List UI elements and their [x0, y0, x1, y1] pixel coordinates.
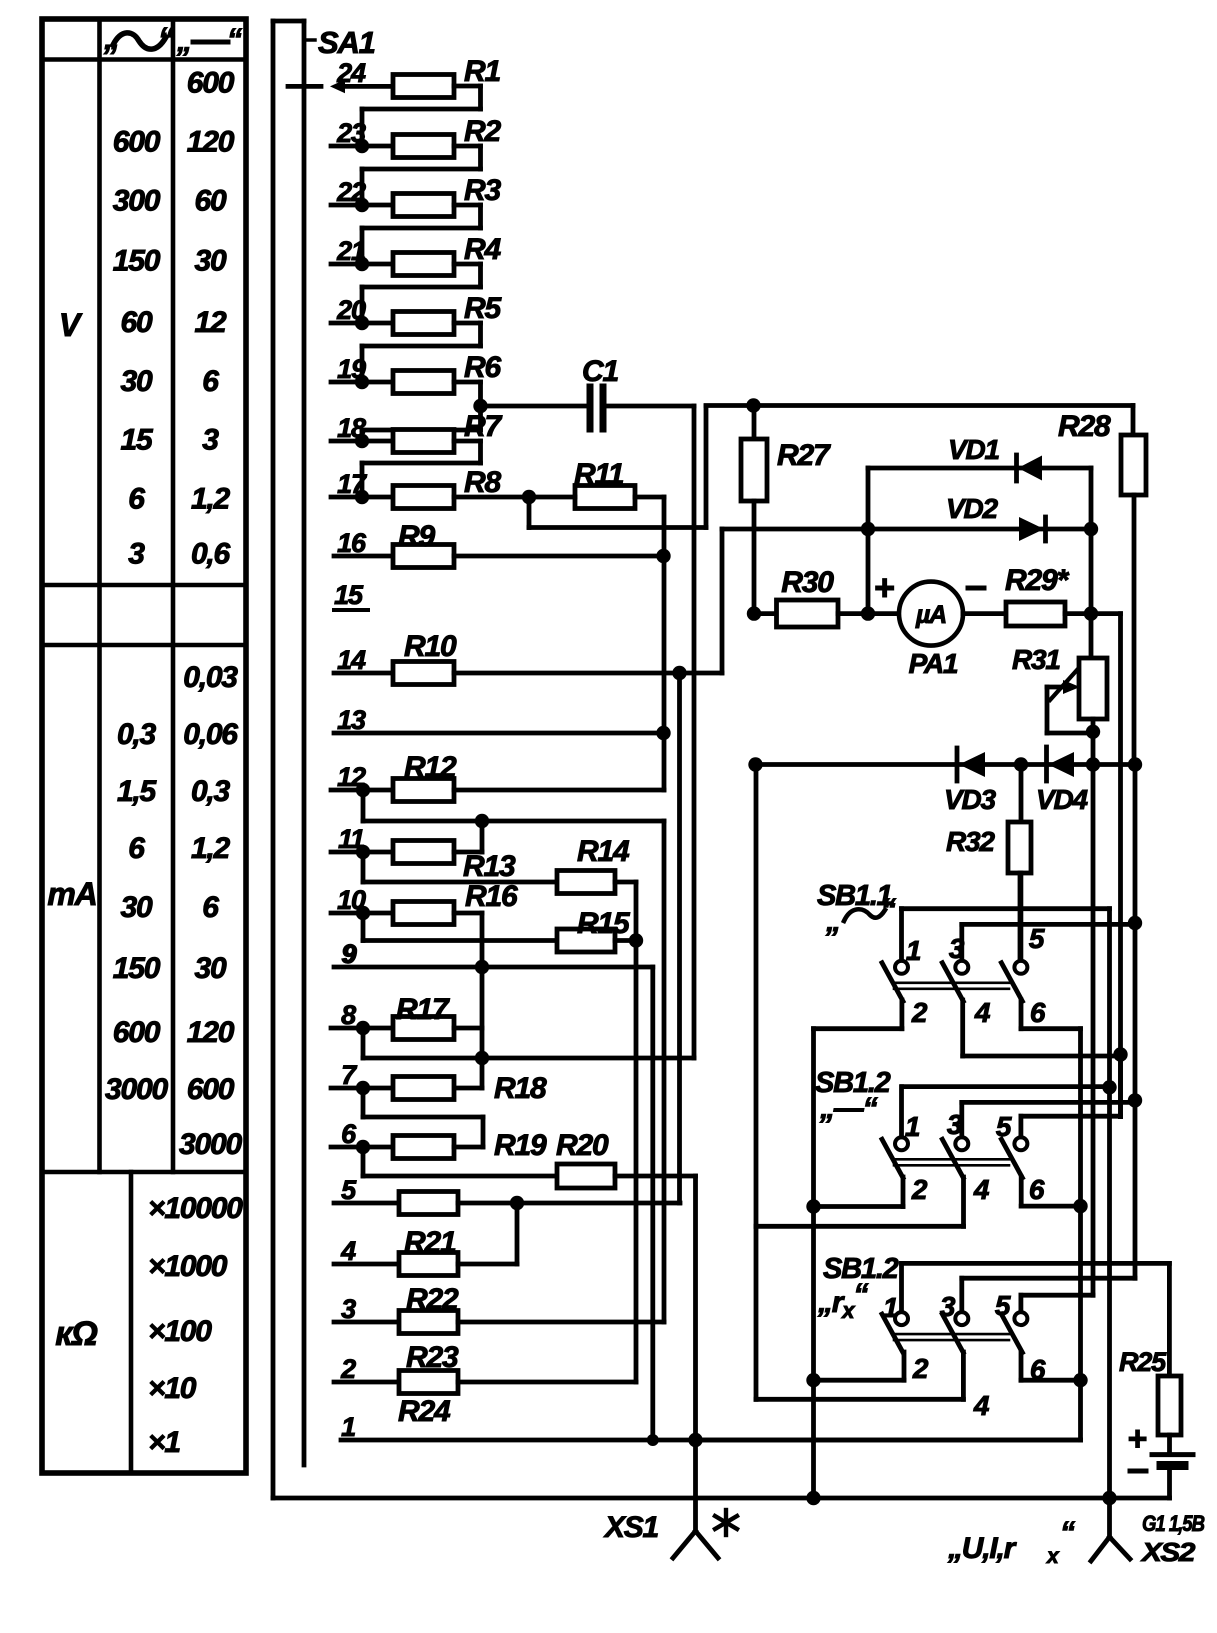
svg-text:1,5: 1,5 [117, 775, 158, 808]
svg-text:3000: 3000 [105, 1073, 168, 1106]
svg-text:кΩ: кΩ [55, 1315, 97, 1353]
svg-text:30: 30 [121, 891, 153, 924]
svg-text:×1: ×1 [148, 1426, 180, 1459]
svg-text:PA1: PA1 [909, 648, 958, 679]
svg-text:R28: R28 [1058, 410, 1111, 443]
svg-text:R11: R11 [574, 458, 624, 491]
svg-text:12: 12 [195, 306, 227, 339]
svg-text:2: 2 [912, 1353, 929, 1384]
svg-text:mA: mA [47, 876, 96, 912]
svg-text:1: 1 [906, 935, 921, 966]
svg-text:XS1: XS1 [603, 1511, 659, 1544]
svg-text:VD1: VD1 [948, 434, 999, 465]
svg-text:„: „ [176, 25, 191, 58]
svg-text:1: 1 [883, 1292, 898, 1323]
svg-text:4: 4 [340, 1236, 356, 1266]
svg-text:16: 16 [337, 528, 367, 558]
svg-text:24: 24 [336, 58, 366, 88]
svg-text:60: 60 [195, 184, 227, 217]
svg-text:R10: R10 [404, 630, 457, 663]
svg-text:0,03: 0,03 [183, 661, 238, 694]
svg-text:×10000: ×10000 [148, 1192, 243, 1225]
svg-text:C1: C1 [582, 355, 618, 388]
svg-text:+: + [874, 567, 894, 608]
svg-text:R6: R6 [464, 351, 501, 384]
svg-text:R13: R13 [463, 850, 516, 883]
svg-text:3: 3 [947, 1109, 963, 1140]
svg-text:R12: R12 [404, 751, 457, 784]
svg-text:VD4: VD4 [1036, 784, 1088, 815]
svg-text:1,2: 1,2 [191, 483, 231, 516]
svg-text:4: 4 [973, 1174, 990, 1205]
svg-text:13: 13 [337, 705, 366, 735]
svg-text:6: 6 [341, 1119, 357, 1149]
svg-text:300: 300 [113, 184, 161, 217]
svg-text:2: 2 [911, 1174, 928, 1205]
svg-text:6: 6 [1029, 1174, 1045, 1205]
svg-text:R32: R32 [946, 826, 995, 857]
svg-text:„U,I,r: „U,I,r [947, 1532, 1018, 1565]
svg-text:R15: R15 [577, 907, 631, 940]
svg-text:3: 3 [128, 538, 145, 571]
svg-text:120: 120 [187, 126, 235, 159]
svg-text:5: 5 [995, 1290, 1011, 1321]
svg-text:R4: R4 [464, 233, 501, 266]
svg-text:0,3: 0,3 [191, 775, 231, 808]
svg-text:3: 3 [940, 1291, 956, 1322]
svg-text:R25: R25 [1119, 1347, 1167, 1377]
svg-text:R27: R27 [777, 439, 831, 472]
svg-text:14: 14 [337, 645, 366, 675]
svg-text:R29*: R29* [1005, 564, 1069, 597]
svg-text:5: 5 [996, 1111, 1012, 1142]
svg-text:R1: R1 [464, 55, 500, 88]
svg-text:15: 15 [334, 580, 364, 610]
svg-text:×10: ×10 [148, 1372, 197, 1405]
svg-text:R17: R17 [396, 993, 450, 1026]
svg-text:„: „ [825, 905, 840, 938]
svg-text:5: 5 [1029, 923, 1045, 954]
svg-text:R7: R7 [464, 410, 502, 443]
svg-text:R24: R24 [398, 1395, 451, 1428]
svg-text:0,6: 0,6 [191, 538, 231, 571]
svg-text:“: “ [881, 893, 896, 926]
svg-text:“: “ [158, 21, 174, 57]
svg-text:600: 600 [187, 1073, 235, 1106]
svg-text:SA1: SA1 [318, 25, 375, 60]
svg-text:2: 2 [911, 997, 928, 1028]
svg-text:VD2: VD2 [946, 493, 998, 524]
svg-text:5: 5 [341, 1175, 357, 1205]
svg-text:30: 30 [195, 952, 227, 985]
svg-text:R20: R20 [556, 1129, 609, 1162]
svg-text:R8: R8 [464, 466, 501, 499]
svg-text:1: 1 [341, 1412, 355, 1442]
svg-text:3000: 3000 [179, 1128, 242, 1161]
svg-text:R30: R30 [781, 566, 834, 599]
svg-text:R2: R2 [464, 115, 501, 148]
svg-text:„—“: „—“ [819, 1092, 878, 1125]
svg-text:+: + [1128, 1420, 1147, 1458]
svg-text:R31: R31 [1012, 644, 1060, 675]
svg-text:R18: R18 [494, 1072, 547, 1105]
svg-text:3: 3 [949, 933, 965, 964]
svg-text:R9: R9 [398, 520, 435, 553]
svg-text:60: 60 [121, 306, 153, 339]
svg-text:6: 6 [1030, 1354, 1046, 1385]
svg-text:µA: µA [915, 601, 946, 629]
svg-text:600: 600 [113, 1016, 161, 1049]
svg-text:6: 6 [202, 891, 219, 924]
svg-text:G1 1,5В: G1 1,5В [1142, 1511, 1205, 1536]
svg-text:6: 6 [1030, 997, 1046, 1028]
svg-text:R5: R5 [464, 292, 502, 325]
svg-text:120: 120 [187, 1016, 235, 1049]
svg-text:R14: R14 [577, 835, 630, 868]
svg-text:×100: ×100 [148, 1315, 212, 1348]
svg-text:VD3: VD3 [944, 784, 996, 815]
svg-text:6: 6 [128, 483, 145, 516]
svg-text:1,2: 1,2 [191, 832, 231, 865]
svg-text:30: 30 [121, 365, 153, 398]
svg-text:R16: R16 [465, 880, 518, 913]
svg-text:150: 150 [113, 244, 161, 277]
svg-text:0,3: 0,3 [117, 718, 157, 751]
svg-text:2: 2 [340, 1354, 356, 1384]
svg-text:1: 1 [905, 1111, 920, 1142]
svg-text:0,06: 0,06 [183, 718, 238, 751]
svg-text:R19: R19 [494, 1129, 547, 1162]
svg-text:“: “ [1060, 1516, 1075, 1549]
svg-text:3: 3 [202, 424, 219, 457]
svg-text:×1000: ×1000 [148, 1250, 228, 1283]
svg-text:4: 4 [973, 1390, 990, 1421]
svg-text:“: “ [227, 23, 242, 56]
svg-text:9: 9 [342, 939, 357, 969]
svg-text:8: 8 [341, 1000, 356, 1030]
svg-text:30: 30 [195, 244, 227, 277]
svg-text:600: 600 [113, 126, 161, 159]
svg-text:15: 15 [121, 424, 154, 457]
svg-text:6: 6 [128, 832, 145, 865]
svg-text:6: 6 [202, 365, 219, 398]
svg-text:3: 3 [341, 1294, 356, 1324]
svg-text:150: 150 [113, 952, 161, 985]
svg-text:4: 4 [974, 997, 991, 1028]
svg-text:XS2: XS2 [1140, 1537, 1196, 1567]
svg-text:600: 600 [187, 67, 235, 100]
svg-text:R3: R3 [464, 174, 501, 207]
